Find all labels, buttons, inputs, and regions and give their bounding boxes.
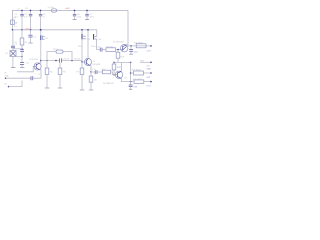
ground (C4) — [28, 42, 32, 44]
svg-text:T3 2SC5200: T3 2SC5200 — [113, 42, 125, 44]
svg-text:GND: GND — [146, 69, 151, 71]
terminal OUT — [150, 45, 152, 47]
resistor R5 (x47 to ground) — [46, 61, 48, 69]
capacitor C9 plates (left column) — [11, 45, 15, 47]
transistor T4 (output lower) — [115, 71, 122, 78]
capacitor C15 (series, driver line) — [99, 48, 101, 52]
wire: x22 column down — [21, 30, 23, 38]
svg-text:R4 22k: R4 22k — [74, 58, 80, 60]
svg-text:R14 0R22: R14 0R22 — [132, 70, 142, 72]
wire: T2 emitter down — [90, 66, 91, 72]
resistor R12 (x114 bias lower) — [113, 62, 115, 64]
svg-text:220u: 220u — [91, 46, 95, 48]
wire: mid output link line — [114, 61, 131, 63]
ground (C7) — [85, 19, 89, 21]
resistor R7 (x82 to ground) — [81, 62, 83, 68]
svg-text:C12 47: C12 47 — [62, 58, 69, 60]
ground (zobel) — [129, 53, 133, 55]
ground (R5) — [45, 87, 50, 89]
node: x41 on mid rail — [40, 29, 42, 31]
node: mid rail left T-junction — [12, 29, 14, 31]
ground (zobel 2) — [129, 88, 132, 90]
wire: supply rail right drop to T2 collector — [127, 10, 129, 44]
zobel capacitor C16 — [130, 46, 132, 50]
wire: R15 to OUT2 terminal — [144, 81, 151, 83]
svg-text:OUT: OUT — [146, 77, 151, 79]
resistor R11 (output, 0R22) — [136, 44, 146, 48]
input gnd terminal — [8, 86, 10, 88]
svg-text:OUT: OUT — [146, 85, 151, 87]
wire: T3 collector to supply — [126, 43, 128, 46]
node: T2 base junction — [81, 61, 83, 63]
ground (R6) — [58, 87, 63, 89]
wire: input line — [6, 77, 31, 79]
svg-text:220u: 220u — [78, 46, 82, 48]
wire: top supply rail — [12, 9, 128, 11]
resistor R8 (x91 to ground) — [90, 72, 92, 76]
resistor R14 (lower output) — [131, 72, 134, 74]
wire: mid rail (second supply rail) — [12, 29, 97, 31]
resistor R6 (x60 to ground) — [59, 63, 61, 68]
svg-text:+35V: +35V — [24, 28, 30, 30]
capacitor C1 (input coupling) — [30, 76, 32, 80]
wire: C9 to regulator box — [12, 48, 14, 51]
capacitor (x22 mid) — [20, 49, 24, 51]
node: T2 emitter branch — [90, 71, 92, 73]
wire: fuse to mid rail — [11, 25, 13, 30]
capacitor C4 (x30 below mid rail) — [30, 30, 32, 35]
wire: rail3 continues to T2 base — [62, 61, 85, 63]
bridge rectifier U1 (box with X) — [10, 51, 16, 57]
transistor T3 (output NPN) — [121, 45, 128, 52]
terminal OUT lower — [150, 81, 152, 83]
wire: C14 to driver line — [97, 49, 100, 51]
wire: T4 emitter right — [121, 79, 133, 82]
resistor R3 (pill on bypass) — [56, 50, 63, 53]
wire: T3 emitter to output line — [127, 45, 151, 47]
capacitor C10 (x22 bottom) — [20, 62, 24, 64]
zobel capacitor C18 — [130, 82, 132, 85]
resistor R13 (series lower) — [97, 71, 102, 73]
svg-text:+40V: +40V — [65, 8, 71, 10]
electrolytic C14 (x97 from mid rail end) — [96, 30, 98, 37]
svg-text:R9 470: R9 470 — [106, 46, 113, 48]
node: T3 base junction — [117, 49, 119, 51]
svg-text:100n: 100n — [77, 17, 81, 19]
wire: link to x22 column (upper) — [13, 48, 22, 50]
wire: T2 collector up to mid rail — [87, 30, 89, 59]
resistor R10 (bias, x118 down) — [117, 50, 119, 53]
wire: left supply drop to fuse — [11, 10, 13, 20]
node: rail3 x56 — [55, 60, 57, 62]
T4 base chain from T2 emitter — [91, 71, 95, 73]
svg-text:1u: 1u — [43, 17, 45, 19]
node: emitter/zobel junction — [130, 81, 132, 83]
capacitor C2 (under top rail, x22) — [21, 10, 23, 14]
wire: base return line — [17, 66, 33, 71]
node: bridge right corner — [71, 60, 73, 62]
capacitor C12 (series on rail3) — [59, 58, 61, 62]
svg-text:10n: 10n — [24, 17, 27, 19]
wire: C1 to emitter riser — [33, 71, 41, 78]
terminal OUT2 — [150, 72, 152, 74]
resistor R15 (lower emitter out) — [134, 80, 144, 83]
speaker gnd segment — [140, 61, 151, 63]
wire: R9 to T3 base — [116, 49, 121, 51]
capacitor C3 (under top rail, x30.5) — [30, 10, 32, 14]
wire: input gnd stub — [9, 80, 22, 86]
svg-text:L1 10u: L1 10u — [48, 7, 54, 9]
ground (R7) — [80, 89, 85, 91]
wire: x130.6 vertical — [130, 62, 132, 81]
wire: left column below mid rail — [12, 30, 14, 46]
node: output node — [130, 45, 132, 47]
wire: box bottom link right — [16, 56, 22, 58]
capacitor C7 (top rail decoupling, x87) — [86, 10, 88, 14]
resistor R9 (series, driver line) — [102, 49, 106, 51]
inductor L1 on top rail — [52, 9, 57, 12]
transistor T1 — [34, 63, 41, 70]
wire: bypass bridge over C12 — [47, 52, 56, 61]
wire: T1 collector to rail3 — [40, 61, 41, 64]
resistor R2 (x22) — [20, 38, 24, 45]
electrolytic C13 (x82 from mid rail) — [81, 30, 83, 34]
svg-text:R11 0R22: R11 0R22 — [134, 42, 144, 44]
transistor T2 — [84, 58, 91, 65]
svg-text:BC546B: BC546B — [93, 64, 101, 66]
fuse F1 — [11, 20, 15, 25]
node: left col junction — [21, 48, 23, 50]
electrolytic C11 (x41 between rails) — [40, 30, 42, 36]
wire: R13 to T4 base — [111, 72, 116, 75]
node: lower out junction — [130, 72, 132, 74]
svg-text:R3 1k: R3 1k — [53, 49, 58, 51]
svg-text:100n: 100n — [90, 17, 94, 19]
svg-text:OUT: OUT — [147, 50, 152, 52]
node: bridge left corner — [46, 60, 48, 62]
capacitor C6 (top rail decoupling, x74.5) — [74, 10, 76, 14]
svg-text:T1 BC550: T1 BC550 — [29, 59, 39, 61]
wire: box to ground — [12, 57, 14, 68]
capacitor C5 (under top rail, x40.5) — [40, 10, 42, 14]
svg-text:R15 0R22: R15 0R22 — [133, 79, 143, 81]
capacitor C17 (series lower) — [94, 70, 96, 74]
ground (C6) — [73, 19, 77, 21]
svg-text:GND: GND — [4, 76, 9, 78]
node: rail3 at T1 collector — [40, 60, 42, 62]
wire: rail3 feedback line — [41, 60, 60, 62]
svg-text:T4 2SA1943: T4 2SA1943 — [103, 82, 115, 85]
wire: T1 emitter down — [40, 70, 41, 72]
ground (C10) — [20, 67, 24, 69]
ground (left column) — [11, 67, 16, 69]
wire: T4 collector up — [120, 62, 122, 71]
ground (R8) — [89, 89, 94, 91]
